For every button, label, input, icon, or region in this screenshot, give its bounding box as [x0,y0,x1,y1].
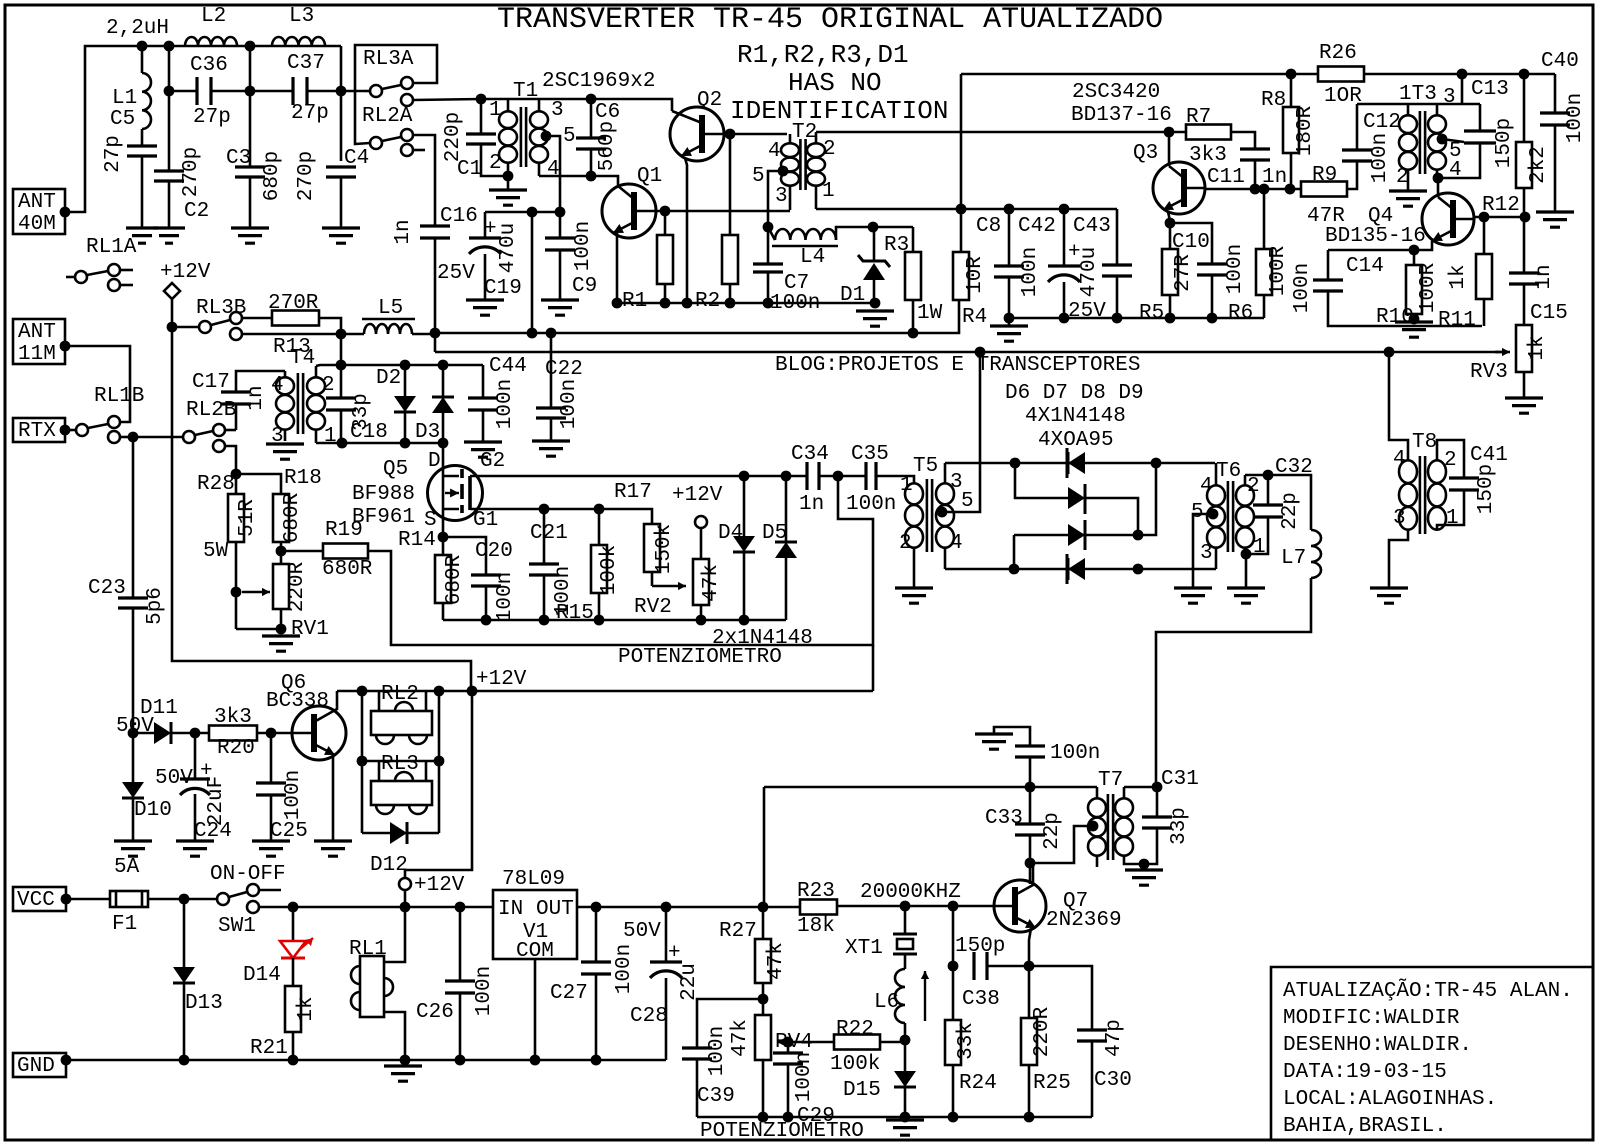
capacitor C18 [326,398,356,410]
inductor L7 [1311,530,1321,578]
svg-text:C17: C17 [192,371,230,394]
wire C36/C37 row [169,90,197,93]
svg-text:100n: 100n [572,221,595,271]
svg-text:4XOA95: 4XOA95 [1038,429,1114,452]
svg-text:22u: 22u [678,963,701,1001]
svg-text:R27: R27 [719,920,757,943]
wire Q2 collector row [723,133,787,136]
svg-text:47k: 47k [729,1019,752,1057]
wire mid rail A y=333 [435,300,959,333]
svg-text:C18: C18 [350,421,388,444]
capacitor C38 [974,952,987,980]
ground T3 pin2 [1389,191,1427,206]
resistor R10 [1413,250,1416,265]
svg-text:2: 2 [899,532,912,555]
resistor R4 [960,209,963,252]
ground R10 [1395,322,1433,337]
svg-text:R1,R2,R3,D1: R1,R2,R3,D1 [737,40,909,70]
node RL2B output [231,469,242,480]
wire T4 pin1 row y=443 [316,442,443,445]
ground T8 pin3 [1370,588,1408,603]
svg-text:C11: C11 [1207,166,1245,189]
transformer T1 [521,107,526,167]
svg-text:RL3A: RL3A [363,48,414,71]
svg-text:Q5: Q5 [383,458,408,481]
wire T3 pin5 tap [1437,134,1448,145]
svg-text:1n: 1n [245,385,268,410]
transistor Q3 [1153,162,1205,214]
svg-text:IN: IN [498,898,523,921]
svg-text:L6: L6 [874,991,899,1014]
resistor R23 [800,900,837,915]
svg-text:SW1: SW1 [218,915,256,938]
svg-text:3: 3 [775,185,788,208]
svg-text:50V: 50V [623,920,661,943]
svg-text:33p: 33p [1168,807,1191,845]
svg-text:4: 4 [768,140,781,163]
capacitor C24 [194,733,197,779]
svg-text:2: 2 [823,138,836,161]
wire T2 pin5 tap [778,166,789,177]
ANT 11M terminal [13,319,65,364]
wire diode ring top y=463 [945,462,1215,465]
svg-text:11M: 11M [18,343,56,366]
svg-text:100R: 100R [1417,262,1440,313]
inductor L1 [141,46,144,73]
capacitor C36 [197,77,211,105]
svg-text:100n: 100n [846,493,896,516]
capacitor C28 [665,907,668,962]
svg-text:HAS NO: HAS NO [788,68,882,98]
wire R17 to RV2 wiper [651,572,654,586]
svg-text:100n: 100n [613,944,636,994]
wire Q6 emitter [332,756,335,841]
node D11 [128,728,139,739]
svg-text:C10: C10 [1172,231,1210,254]
svg-text:100k: 100k [830,1053,880,1076]
svg-text:10R: 10R [964,256,987,294]
wire Q7 collector [1015,863,1033,895]
GND terminal [13,1053,66,1077]
wire R27 riser [763,787,766,907]
wire ANT11M to RL1B [65,346,130,422]
svg-text:2k2: 2k2 [1527,146,1550,184]
svg-text:C31: C31 [1161,768,1199,791]
node Q4 base [1433,173,1444,184]
resistor R25 [1028,966,1031,1018]
wire ring second row [1015,463,1068,498]
wire G1 row [470,509,652,524]
resistor R11 [1483,217,1486,254]
svg-text:100n: 100n [1224,244,1247,294]
svg-text:470u: 470u [1078,247,1101,297]
svg-text:100n: 100n [706,1026,729,1076]
wire ring bottom row y=569 [945,568,1216,571]
capacitor C31 [1156,787,1159,817]
resistor R19 [281,550,323,553]
svg-text:50V: 50V [155,767,193,790]
capacitor C33 [1029,787,1032,824]
diode D5 [785,476,788,542]
svg-text:100n: 100n [558,379,581,429]
svg-text:1n: 1n [392,219,415,244]
ground rail Q1/Q2 [617,302,875,305]
capacitor C42 [1063,209,1066,266]
svg-text:D: D [428,450,441,473]
+12V terminal switched [399,878,411,890]
svg-text:L7: L7 [1281,547,1306,570]
wire RL1B to RL2B [133,436,183,439]
wire Q3 emitter [1168,212,1170,223]
svg-text:ANT: ANT [18,191,56,214]
wire T5 pin5 tap [937,507,948,518]
svg-text:2: 2 [1247,475,1260,498]
resistor R5 [1165,218,1176,229]
ground C3 [231,228,269,243]
wire ring third row [1014,463,1156,535]
svg-text:T2: T2 [792,121,817,144]
capacitor C16 [420,226,450,238]
svg-text:2SC3420: 2SC3420 [1072,81,1160,104]
svg-text:C43: C43 [1073,215,1111,238]
svg-text:C35: C35 [851,443,889,466]
wire top rail to R26 [961,73,1318,76]
svg-text:560p: 560p [596,121,619,171]
svg-text:3k3: 3k3 [214,706,252,729]
svg-text:C12: C12 [1363,111,1401,134]
LED D14 [292,907,295,941]
svg-text:22uF: 22uF [205,776,228,826]
crystal XT1 [904,906,907,934]
svg-text:R21: R21 [250,1037,288,1060]
capacitor C22 [550,333,553,408]
capacitor C17 [236,371,285,392]
svg-text:+12V: +12V [160,261,211,284]
svg-text:51R: 51R [236,499,259,537]
svg-text:R23: R23 [797,880,835,903]
diode D2 [404,365,407,396]
zener diode D1 [873,227,876,261]
svg-text:T4: T4 [290,347,315,370]
arrowhead RV3 wiper [1495,351,1510,354]
wire rail y=318 [1009,317,1264,320]
svg-text:100n: 100n [494,379,517,429]
svg-text:C26: C26 [416,1001,454,1024]
svg-text:150p: 150p [1475,464,1498,514]
svg-text:+: + [668,942,681,965]
svg-text:IDENTIFICATION: IDENTIFICATION [730,96,948,126]
ground T5 pin2 [895,588,933,603]
arrow L6 adjust [924,971,926,1021]
svg-text:C34: C34 [791,443,829,466]
wire Q7 collector to C33 node [1029,863,1032,884]
resistor R22 [788,1041,834,1044]
svg-text:27p: 27p [193,106,231,129]
svg-text:LOCAL:ALAGOINHAS.: LOCAL:ALAGOINHAS. [1283,1088,1497,1111]
wire F1 to SW1 [148,898,217,901]
wire Q4 base [1437,178,1440,197]
svg-text:100n: 100n [1369,133,1392,183]
inductor L2 [185,37,237,46]
svg-text:3k3: 3k3 [1189,144,1227,167]
svg-text:47k: 47k [765,942,788,980]
svg-text:1: 1 [489,99,502,122]
ground T6 pin1 [1245,554,1248,588]
svg-text:78L09: 78L09 [502,868,565,891]
transistor Q6 [292,706,346,760]
svg-text:R14: R14 [398,529,436,552]
svg-text:4: 4 [1393,448,1406,471]
svg-text:270p: 270p [180,147,203,197]
svg-text:1: 1 [822,180,835,203]
svg-text:RV2: RV2 [634,596,672,619]
ANT 40M terminal [13,189,65,234]
capacitor C30 [1029,966,1092,1030]
svg-text:R26: R26 [1319,42,1357,65]
transistor Q4 [1422,193,1474,245]
svg-text:R9: R9 [1312,164,1337,187]
svg-text:F1: F1 [112,913,137,936]
transistor Q2 [670,107,724,161]
transformer T2 [800,139,805,190]
wire R23 to Q7 base [837,905,994,908]
svg-text:R24: R24 [959,1072,997,1095]
svg-text:3: 3 [1443,86,1456,109]
svg-text:18k: 18k [797,915,835,938]
capacitor C41 [1449,478,1479,490]
svg-text:R28: R28 [197,473,235,496]
wire GND rail [66,1059,666,1062]
svg-text:C13: C13 [1471,78,1509,101]
wire T1 top rail [481,99,672,111]
svg-text:C14: C14 [1346,255,1384,278]
transformer T6 [1228,481,1233,552]
svg-text:TRANSVERTER TR-45 ORIGINAL ATU: TRANSVERTER TR-45 ORIGINAL ATUALIZADO [497,3,1163,37]
transformer T8 [1420,456,1425,534]
svg-text:RL1B: RL1B [94,385,144,408]
capacitor C5 [141,129,144,146]
svg-text:R8: R8 [1261,89,1286,112]
wire Q7 emitter [1029,928,1031,966]
wire T1 pin5 tap [541,131,552,142]
capacitor C2 [168,46,171,171]
resistor R1 [664,211,667,235]
potentiometer RV2 [693,559,709,605]
svg-text:100n: 100n [793,1052,816,1102]
wire C19/C9 row [485,211,560,214]
svg-text:5A: 5A [114,856,140,879]
svg-text:C2: C2 [184,200,209,223]
wire T1 pin4 line [539,176,618,186]
svg-text:D1: D1 [840,284,865,307]
svg-text:RTX: RTX [18,420,56,443]
wire regulator out rail [577,906,800,909]
svg-text:680R: 680R [443,554,466,605]
svg-text:150p: 150p [955,935,1005,958]
svg-text:ANT: ANT [18,321,56,344]
svg-text:C6: C6 [595,101,620,124]
svg-text:C5: C5 [110,108,135,131]
wire to R18 [236,474,281,494]
wire +12V relay rail [337,690,873,693]
capacitor C44 [482,365,485,398]
diode D12 [362,832,390,835]
svg-text:3: 3 [551,99,564,122]
svg-text:1: 1 [324,425,337,448]
svg-text:Q2: Q2 [697,89,722,112]
svg-text:47k: 47k [700,564,723,602]
capacitor C34 [807,462,819,490]
svg-text:D14: D14 [243,964,281,987]
svg-text:33k: 33k [955,1022,978,1060]
svg-text:2: 2 [1444,449,1457,472]
wire C34-C35 [819,475,866,478]
svg-text:C4: C4 [344,147,369,170]
diode D15 [904,1040,907,1071]
svg-text:2: 2 [1396,166,1409,189]
ground T4 pin3 [266,444,304,459]
stub RL2A lower throw [413,149,425,152]
svg-text:R25: R25 [1033,1072,1071,1095]
capacitor C25 [270,733,273,783]
svg-text:R7: R7 [1186,106,1211,129]
capacitor C21 [543,509,546,564]
svg-text:100k: 100k [598,545,621,595]
wire Q1 emitter to rail [616,233,619,303]
svg-text:D12: D12 [370,854,408,877]
node L4/C7 [763,222,774,233]
capacitor C37 [293,77,307,105]
svg-text:C40: C40 [1541,50,1579,73]
resistor R8 [1290,74,1293,107]
wire C33 to T7 tap [1030,826,1089,863]
svg-text:C21: C21 [530,522,568,545]
svg-text:R17: R17 [614,481,652,504]
resistor R20 [209,726,257,741]
capacitor C8 [1008,209,1011,266]
svg-text:100n: 100n [770,292,820,315]
svg-text:1T3: 1T3 [1399,83,1437,106]
transistor Q5 MOSFET [428,466,483,521]
svg-text:C32: C32 [1275,456,1313,479]
wire RL3A loop [355,45,437,144]
svg-text:47p: 47p [1103,1019,1126,1057]
svg-text:R15: R15 [556,602,594,625]
svg-text:40M: 40M [18,213,56,236]
wire +12V drop to terminal [405,691,472,878]
info box frame [1271,967,1593,1140]
svg-text:1n: 1n [799,493,824,516]
svg-text:27p: 27p [291,102,329,125]
tap dot T7 [1088,821,1099,832]
wire Q2 emitter [685,158,687,303]
capacitor C29 [787,1042,790,1053]
svg-text:3: 3 [1393,507,1406,530]
svg-text:27p: 27p [102,135,125,173]
ground C5 [126,228,158,243]
svg-text:C23: C23 [88,577,126,600]
svg-text:50V: 50V [116,715,154,738]
svg-text:T8: T8 [1412,431,1437,454]
svg-text:T5: T5 [913,455,938,478]
svg-text:470u: 470u [497,223,520,273]
svg-text:680R: 680R [322,558,373,581]
resistor R7 [1186,125,1231,140]
wire Q5 source node [438,532,449,543]
svg-text:R4: R4 [962,306,987,329]
wire Q6 collector [314,691,337,722]
wire +12V column [172,299,471,691]
diode D6 [1068,452,1085,474]
svg-text:RL1A: RL1A [86,236,137,259]
svg-text:GND: GND [17,1055,55,1078]
svg-text:G1: G1 [473,509,498,532]
wire RL2A to C16 [413,135,435,226]
svg-text:D2: D2 [376,367,401,390]
svg-text:R3: R3 [884,234,909,257]
svg-text:2,2uH: 2,2uH [106,17,169,40]
svg-text:C30: C30 [1094,1069,1132,1092]
capacitor C10 [1170,223,1212,264]
svg-text:C15: C15 [1530,302,1568,325]
wire RL3A lower throw to T1 [413,99,481,100]
svg-text:OUT: OUT [536,898,574,921]
inductor L5 [364,324,412,334]
resistor R17 [644,524,660,572]
wire T4 pin2 row y=365 [316,365,483,366]
capacitor C12 [1342,150,1372,161]
ground T7/C31 [1143,864,1146,870]
wire RL3 row [361,691,364,833]
svg-text:C33: C33 [985,807,1023,830]
svg-text:180R: 180R [1294,105,1317,156]
capacitor C14 [1327,250,1330,280]
svg-text:220p: 220p [442,112,465,162]
capacitor C9 [559,212,562,238]
wire G2 row [470,475,807,478]
diode D7 [1068,487,1085,509]
node T1 pin2 ground [503,171,514,182]
svg-text:RV3: RV3 [1470,361,1508,384]
diode D10 [132,733,135,782]
capacitor C39 [697,999,763,1048]
svg-text:R11: R11 [1438,309,1476,332]
resistor R6 [1263,189,1266,249]
svg-text:POTENZIOMETRO: POTENZIOMETRO [700,1120,864,1143]
wire L3 down to C4/RL3A [340,46,343,161]
svg-text:5: 5 [961,490,974,513]
svg-text:L1: L1 [112,87,137,110]
svg-text:25V: 25V [1068,300,1106,323]
svg-text:4: 4 [271,374,284,397]
resistor R3 [912,227,915,252]
transformer T7 [1108,794,1113,860]
wire 78L09 COM [534,959,537,1060]
svg-text:+12V: +12V [476,668,527,691]
resistor R9 [1301,182,1347,197]
capacitor C15 [1523,217,1526,273]
potentiometer RV4 [755,1015,771,1060]
svg-text:R10: R10 [1376,306,1414,329]
svg-text:4: 4 [547,158,560,181]
svg-text:XT1: XT1 [845,937,883,960]
capacitor C19 [484,212,487,238]
svg-text:L2: L2 [201,5,226,28]
svg-text:C8: C8 [976,215,1001,238]
svg-text:C22: C22 [545,358,583,381]
svg-text:BAHIA,BRASIL.: BAHIA,BRASIL. [1283,1115,1447,1138]
wire ANT40M to filter [65,46,341,212]
